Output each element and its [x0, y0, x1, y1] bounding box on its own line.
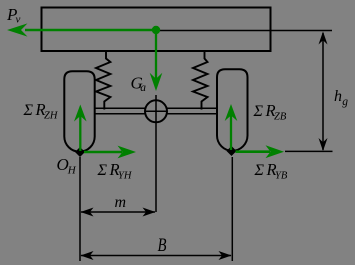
R_YB arrowhead [266, 145, 285, 158]
G_a force arrow shaft [155, 30, 157, 80]
reaction R_ZB up arrow shaft [230, 115, 232, 151]
h_g top arrowhead [319, 32, 328, 45]
svg-text:m: m [115, 194, 127, 211]
contact point diamond right [227, 146, 237, 156]
line from right arrow to h_g (y=152) [285, 150, 333, 152]
right spring [193, 51, 208, 110]
differential circle [145, 100, 167, 122]
svg-text:g: g [342, 96, 348, 108]
left wheel [64, 71, 94, 151]
P_v arrowhead [7, 23, 28, 36]
R_YH arrowhead [118, 146, 137, 159]
svg-text:h: h [334, 88, 342, 105]
circle horizontal diameter [145, 110, 167, 112]
label O_H [57, 155, 77, 177]
axle beam top line [94, 107, 218, 109]
left spring [96, 51, 110, 110]
m dimension line [81, 211, 155, 213]
vertical centerline x=156 [155, 95, 157, 212]
svg-text:Σ: Σ [23, 102, 34, 119]
m right arrowhead [143, 208, 156, 217]
svg-text:ZH: ZH [44, 111, 59, 122]
label h_g [334, 88, 348, 108]
label Sigma R_YH [97, 160, 133, 182]
G_a arrowhead [150, 73, 163, 91]
svg-text:a: a [140, 82, 146, 94]
force P_v green arrow shaft [25, 29, 156, 32]
R_ZB arrowhead [225, 104, 238, 121]
label G_a [131, 74, 147, 95]
label Sigma R_ZB [253, 101, 287, 123]
h_g bottom arrowhead [319, 138, 328, 151]
label Sigma R_YB [254, 160, 288, 182]
B left arrowhead [81, 251, 94, 260]
svg-text:Σ: Σ [97, 162, 108, 179]
reaction R_YB right arrow shaft [236, 150, 271, 153]
svg-text:H: H [67, 165, 77, 177]
label Sigma R_ZH [23, 100, 59, 122]
svg-text:Σ: Σ [254, 162, 265, 179]
R_ZH arrowhead [74, 105, 87, 122]
m left arrowhead [81, 208, 94, 217]
contact point diamond O_H [75, 147, 85, 157]
right wheel [217, 69, 248, 150]
sprung mass body rectangle [42, 8, 271, 52]
reaction R_YH right arrow shaft [84, 151, 122, 154]
B dimension line [81, 255, 231, 257]
axle beam bottom line [94, 113, 218, 115]
svg-text:Σ: Σ [253, 103, 264, 120]
svg-text:YH: YH [118, 171, 133, 182]
svg-text:B: B [158, 235, 167, 256]
h_g dimension line [322, 33, 324, 150]
centerline through body to h_g dimension (thin) [156, 30, 332, 32]
reaction R_ZH up arrow shaft [79, 115, 81, 151]
extension line below right wheel (x=232) [231, 157, 233, 261]
green node dot on body [152, 26, 160, 34]
B right arrowhead [219, 251, 232, 260]
svg-text:v: v [16, 14, 21, 26]
extension line below O_H (x=80) [79, 157, 81, 261]
svg-text:YB: YB [275, 171, 288, 182]
svg-text:ZB: ZB [274, 112, 287, 123]
label P_v [6, 5, 21, 26]
